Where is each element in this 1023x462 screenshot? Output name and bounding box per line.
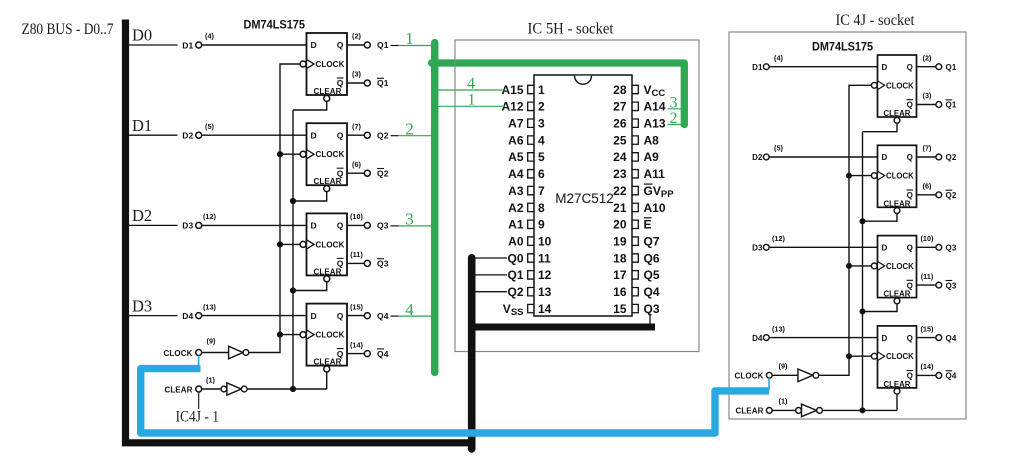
pin 17 bracket (right) xyxy=(632,271,638,279)
svg-text:(9): (9) xyxy=(779,361,788,370)
svg-text:D4: D4 xyxy=(752,334,763,343)
svg-text:D: D xyxy=(882,63,888,72)
svg-text:1: 1 xyxy=(468,92,476,109)
inverter clear driver (right) xyxy=(796,408,802,414)
svg-text:D2: D2 xyxy=(132,206,152,225)
flip-flop 2 of U (left DM74LS175) xyxy=(300,123,347,191)
wire Q-bar1 output stub (right) xyxy=(917,104,936,106)
svg-text:(9): (9) xyxy=(207,336,216,345)
wire Q-bar1 output stub (left) xyxy=(347,82,364,84)
terminal Q4 (right) xyxy=(936,335,942,341)
flip-flop 1 of IC 4J (right DM74LS175) xyxy=(871,55,916,123)
svg-text:CLEAR: CLEAR xyxy=(314,267,342,276)
wire D1 from bus to D2 terminal xyxy=(129,134,178,136)
wire blue thin stub at right CLOCK terminal xyxy=(768,378,770,390)
svg-text:27: 27 xyxy=(613,100,627,114)
svg-text:A0: A0 xyxy=(508,234,524,248)
flip-flop 3 of IC 4J (right DM74LS175) xyxy=(871,236,916,304)
svg-text:(5): (5) xyxy=(774,144,783,153)
flip-flop 3 of U (left DM74LS175) xyxy=(300,213,347,281)
svg-text:D1: D1 xyxy=(182,40,193,50)
svg-text:20: 20 xyxy=(613,218,627,232)
wire Q-bar4 output stub (right) xyxy=(917,374,936,376)
svg-text:Q3: Q3 xyxy=(377,259,389,269)
svg-text:Q4: Q4 xyxy=(946,334,957,343)
terminal Q2 (right) xyxy=(936,154,942,160)
svg-text:DM74LS175: DM74LS175 xyxy=(244,17,306,31)
svg-text:D: D xyxy=(882,153,888,162)
junction clear rail (right) xyxy=(860,218,866,224)
svg-text:CLEAR: CLEAR xyxy=(884,109,911,118)
wire D2 terminal to FF D input (right) xyxy=(769,156,877,158)
svg-text:4: 4 xyxy=(467,75,475,92)
svg-text:(4): (4) xyxy=(774,53,783,62)
pin 9 bracket (left) xyxy=(528,220,534,228)
svg-text:(6): (6) xyxy=(352,160,361,169)
svg-text:CLEAR: CLEAR xyxy=(314,177,342,186)
wire green A13 annotation xyxy=(668,124,685,126)
svg-text:10: 10 xyxy=(538,234,552,248)
junction clock rail / FF3 (right) xyxy=(846,263,852,269)
svg-text:CLOCK: CLOCK xyxy=(886,81,914,90)
notch on chip top xyxy=(575,76,592,85)
svg-text:Q: Q xyxy=(907,153,913,162)
wire Q-bar4 output stub (left) xyxy=(347,353,364,355)
svg-text:Q4: Q4 xyxy=(644,285,660,299)
svg-text:Q3: Q3 xyxy=(946,244,957,253)
svg-text:Q3: Q3 xyxy=(377,221,389,231)
svg-text:Q: Q xyxy=(907,334,913,343)
svg-text:(2): (2) xyxy=(923,53,932,62)
svg-text:A14: A14 xyxy=(644,100,666,114)
pin 13 bracket (left) xyxy=(528,288,534,296)
svg-text:D1: D1 xyxy=(752,63,763,72)
terminal Q4 (left) xyxy=(364,313,370,319)
wire clock rail to FF4 clock bubble (right) xyxy=(849,355,871,357)
wire CLEAR of FF1 to clear rail (right) xyxy=(863,123,898,131)
svg-text:9: 9 xyxy=(538,218,545,232)
svg-text:Q: Q xyxy=(337,130,344,140)
buffer clock driver (left) xyxy=(229,346,243,359)
svg-text:24: 24 xyxy=(613,150,627,164)
svg-text:D1: D1 xyxy=(132,116,152,135)
wire CLEAR of FF2 to clear rail (right) xyxy=(863,214,898,222)
svg-text:CLEAR: CLEAR xyxy=(735,407,763,416)
svg-text:2: 2 xyxy=(538,100,545,114)
pin 12 bracket (left) xyxy=(528,271,534,279)
pin 23 bracket (right) xyxy=(632,170,638,178)
wire clock rail to flip-flop 3 clock bubble (left) xyxy=(280,243,300,245)
svg-text:Q: Q xyxy=(907,244,913,253)
wire Q-bar2 output stub (right) xyxy=(917,194,936,196)
flip-flop 4 of IC 4J (right DM74LS175) xyxy=(871,326,916,394)
wire Q2 output stub (left) xyxy=(347,134,364,136)
pin 3 bracket (left) xyxy=(528,119,534,127)
pin 10 bracket (left) xyxy=(528,237,534,245)
pin 24 bracket (right) xyxy=(632,153,638,161)
svg-text:3: 3 xyxy=(670,94,678,111)
inverter clear driver (left) xyxy=(221,386,227,392)
wire green annotation Q1 to green bus xyxy=(399,45,432,47)
svg-text:25: 25 xyxy=(613,133,627,147)
svg-text:21: 21 xyxy=(613,201,627,215)
wire green annotation Q2 to green bus xyxy=(399,135,432,137)
junction clear rail (left) xyxy=(290,287,296,293)
svg-text:(2): (2) xyxy=(352,32,361,41)
svg-text:Q2: Q2 xyxy=(377,130,389,140)
wire green annotation Q3 to green bus xyxy=(399,225,432,227)
svg-text:IC 4J - socket: IC 4J - socket xyxy=(836,12,916,29)
svg-text:A5: A5 xyxy=(508,150,524,164)
wire CLEAR of flip-flop 1 to clear rail (left) xyxy=(293,101,327,110)
wire D3 terminal to FF D input (right) xyxy=(769,246,877,248)
terminal D4 input (right) xyxy=(763,335,769,341)
svg-text:A9: A9 xyxy=(644,150,660,164)
svg-text:A3: A3 xyxy=(508,184,524,198)
buffer clock driver (right) xyxy=(798,369,813,382)
svg-text:(1): (1) xyxy=(779,396,788,405)
svg-text:D: D xyxy=(882,244,888,253)
terminal Q1 (right) xyxy=(936,64,942,70)
wire Q1 label to green annotation (black stub) xyxy=(391,45,399,47)
svg-text:CLOCK: CLOCK xyxy=(316,331,345,340)
svg-text:3: 3 xyxy=(405,210,414,229)
svg-text:12: 12 xyxy=(538,268,552,282)
svg-text:CLOCK: CLOCK xyxy=(316,240,345,249)
svg-text:Q: Q xyxy=(337,40,344,50)
pin 11 bracket (left) xyxy=(528,254,534,262)
wire CLEAR terminal to inverter (right) xyxy=(772,409,795,411)
svg-text:A1: A1 xyxy=(508,218,524,232)
svg-text:CLOCK: CLOCK xyxy=(735,372,764,381)
svg-text:A2: A2 xyxy=(508,201,524,215)
svg-text:Q: Q xyxy=(907,63,913,72)
wire clock rail to FF2 clock bubble (right) xyxy=(849,175,871,177)
wire Q1 output stub (right) xyxy=(917,66,936,68)
svg-text:CLEAR: CLEAR xyxy=(314,87,342,96)
svg-text:CLEAR: CLEAR xyxy=(164,385,192,394)
wire Q3 output stub (right) xyxy=(917,246,936,248)
svg-text:4: 4 xyxy=(405,300,414,319)
pin 15 bracket (right) xyxy=(632,304,638,312)
terminal Q2 (left) xyxy=(364,132,370,138)
terminal Q-bar4 (right) xyxy=(936,373,942,379)
junction clear rail (right) xyxy=(860,309,866,315)
wire CLEAR of flip-flop 4 down to clear buffer line (left) xyxy=(326,372,328,389)
terminal Q-bar1 (right) xyxy=(936,102,942,108)
terminal Q1 (left) xyxy=(364,42,370,48)
svg-text:(12): (12) xyxy=(203,212,217,221)
svg-text:(13): (13) xyxy=(772,324,786,333)
flip-flop 4 of U (left DM74LS175) xyxy=(300,304,347,372)
wire CLOCK terminal to buffer (right) xyxy=(772,374,798,376)
svg-text:A6: A6 xyxy=(508,133,524,147)
wire CLOCK rail (left, x=280) xyxy=(249,64,300,353)
pin 5 bracket (left) xyxy=(528,153,534,161)
svg-text:A13: A13 xyxy=(644,117,666,131)
terminal D4 input xyxy=(196,313,202,319)
svg-text:Q1: Q1 xyxy=(377,40,389,50)
svg-text:16: 16 xyxy=(613,285,627,299)
svg-text:5: 5 xyxy=(538,150,545,164)
svg-text:11: 11 xyxy=(538,251,551,265)
svg-text:Q3: Q3 xyxy=(644,302,660,316)
wire green A15 annotation xyxy=(438,89,505,91)
svg-text:(12): (12) xyxy=(772,234,786,243)
svg-text:1: 1 xyxy=(405,29,414,48)
wire D4 terminal to flip-flop D input xyxy=(202,315,307,317)
wire Q3 output stub (left) xyxy=(347,224,364,226)
terminal Q3 (right) xyxy=(936,244,942,250)
terminal CLEAR (left) xyxy=(196,386,202,392)
svg-text:(10): (10) xyxy=(921,234,935,243)
svg-text:IC 5H - socket: IC 5H - socket xyxy=(528,21,615,38)
svg-text:D2: D2 xyxy=(182,131,193,141)
svg-text:Q3: Q3 xyxy=(946,281,957,290)
svg-text:1: 1 xyxy=(538,83,545,97)
svg-text:15: 15 xyxy=(613,302,627,316)
terminal Q3 (left) xyxy=(364,222,370,228)
terminal Q-bar3 (right) xyxy=(936,282,942,288)
wire clock rail to flip-flop 4 clock bubble (left) xyxy=(280,334,300,336)
pin 20 bracket (right) xyxy=(632,220,638,228)
svg-text:CLEAR: CLEAR xyxy=(884,290,911,299)
pin 16 bracket (right) xyxy=(632,288,638,296)
wire data bus to Q3 pin15 (thick black) xyxy=(472,324,655,331)
junction clock rail / FF3 (left) xyxy=(277,241,283,247)
svg-text:E: E xyxy=(644,218,652,232)
svg-text:Q0: Q0 xyxy=(507,251,523,265)
svg-text:D4: D4 xyxy=(182,311,193,321)
svg-text:22: 22 xyxy=(613,184,627,198)
flip-flop 1 of U (left DM74LS175) xyxy=(300,33,347,101)
svg-text:18: 18 xyxy=(613,251,627,265)
svg-text:(7): (7) xyxy=(923,144,932,153)
wire D2 terminal to flip-flop D input xyxy=(202,134,307,136)
wire CLEAR of FF3 to clear rail (right) xyxy=(863,304,898,312)
svg-text:17: 17 xyxy=(613,268,627,282)
wire CLEAR of flip-flop 3 to clear rail (left) xyxy=(293,282,327,291)
pin 25 bracket (right) xyxy=(632,136,638,144)
flip-flop 2 of IC 4J (right DM74LS175) xyxy=(871,145,916,213)
svg-text:Q: Q xyxy=(337,221,344,231)
svg-text:CLOCK: CLOCK xyxy=(886,172,914,181)
svg-text:Q6: Q6 xyxy=(644,251,660,265)
wire CLOCK rail (right, x=849) xyxy=(819,85,871,375)
socket outline IC 4J xyxy=(729,32,966,419)
pin 22 bracket (right) xyxy=(632,186,638,194)
svg-text:7: 7 xyxy=(538,184,545,198)
pin 28 bracket (right) xyxy=(632,85,638,93)
wire D3 from bus to D4 terminal xyxy=(129,315,178,317)
svg-text:23: 23 xyxy=(613,167,627,181)
pin 2 bracket (left) xyxy=(528,102,534,110)
pin 1 bracket (left) xyxy=(528,85,534,93)
pin 27 bracket (right) xyxy=(632,102,638,110)
wire D2 from bus to D3 terminal xyxy=(129,224,178,226)
pin 8 bracket (left) xyxy=(528,203,534,211)
svg-text:A11: A11 xyxy=(644,167,666,181)
svg-text:CLEAR: CLEAR xyxy=(314,358,342,367)
wire green bus branch to A14/A13 (thick, top + right drop) xyxy=(432,63,685,125)
svg-text:(3): (3) xyxy=(352,70,361,79)
pin 7 bracket (left) xyxy=(528,186,534,194)
svg-text:(10): (10) xyxy=(350,212,364,221)
svg-text:D3: D3 xyxy=(752,244,763,253)
terminal CLOCK (left) xyxy=(196,350,202,356)
svg-text:D: D xyxy=(311,40,317,50)
EPROM U (M27C512) body xyxy=(534,75,632,316)
wire clock rail to flip-flop 2 clock bubble (left) xyxy=(280,153,300,155)
svg-text:D: D xyxy=(311,130,317,140)
svg-text:Q: Q xyxy=(337,311,344,321)
wire Q-bar3 output stub (right) xyxy=(917,284,936,286)
junction clock rail / FF4 (right) xyxy=(846,353,852,359)
svg-text:13: 13 xyxy=(538,285,552,299)
svg-text:2: 2 xyxy=(670,110,678,127)
svg-text:Q4: Q4 xyxy=(377,311,389,321)
svg-text:DM74LS175: DM74LS175 xyxy=(812,39,873,53)
junction clear rail (left) xyxy=(290,198,296,204)
wire Q1 to bus xyxy=(475,274,507,276)
svg-text:(6): (6) xyxy=(923,182,932,191)
terminal Q-bar4 (left) xyxy=(364,351,370,357)
wire Q-bar3 output stub (left) xyxy=(347,262,364,264)
svg-text:(14): (14) xyxy=(921,362,935,371)
svg-text:M27C512: M27C512 xyxy=(555,191,614,206)
svg-text:(5): (5) xyxy=(205,122,214,131)
wire D0 from bus to D1 terminal xyxy=(129,44,178,46)
wire blue clock link (thick) xyxy=(141,369,769,433)
svg-text:CLEAR: CLEAR xyxy=(884,199,911,208)
terminal CLEAR (right) xyxy=(766,408,772,414)
wire data bus Q0-Q2 (thick black vertical, middle) xyxy=(468,258,476,449)
wire D4 terminal to FF D input (right) xyxy=(769,337,877,339)
svg-text:CLOCK: CLOCK xyxy=(316,60,345,69)
wire Q4 output stub (left) xyxy=(347,315,364,317)
wire D3 terminal to flip-flop D input xyxy=(202,224,307,226)
svg-text:A4: A4 xyxy=(508,167,524,181)
wire Q2 label to green annotation (black stub) xyxy=(391,135,399,137)
svg-text:Q2: Q2 xyxy=(946,153,957,162)
svg-text:6: 6 xyxy=(538,167,545,181)
svg-text:Z80 BUS - D0..7: Z80 BUS - D0..7 xyxy=(22,21,114,38)
terminal D3 input (right) xyxy=(763,244,769,250)
wire clock rail to FF3 clock bubble (right) xyxy=(849,265,871,267)
terminal CLOCK (right) xyxy=(766,372,772,378)
junction clock rail / FF4 (left) xyxy=(277,332,283,338)
wire green A14 annotation xyxy=(668,108,685,110)
pin 14 bracket (left) xyxy=(528,304,534,312)
svg-text:Q4: Q4 xyxy=(377,349,389,359)
pin 19 bracket (right) xyxy=(632,237,638,245)
svg-text:(13): (13) xyxy=(203,302,217,311)
terminal D2 input (right) xyxy=(763,154,769,160)
svg-text:(11): (11) xyxy=(350,250,363,259)
svg-text:CLOCK: CLOCK xyxy=(886,352,914,361)
svg-text:19: 19 xyxy=(613,234,627,248)
wire Q1 output stub (left) xyxy=(347,44,364,46)
pin 4 bracket (left) xyxy=(528,136,534,144)
wire Q2 output stub (right) xyxy=(917,156,936,158)
svg-text:Q1: Q1 xyxy=(377,78,389,88)
wire green A12 annotation xyxy=(438,105,505,107)
terminal D1 input xyxy=(196,42,202,48)
svg-text:28: 28 xyxy=(613,83,627,97)
wire Z80 data bus (thick black, left vertical + bottom horizontal) xyxy=(126,20,475,443)
svg-text:(15): (15) xyxy=(921,324,935,333)
svg-text:A10: A10 xyxy=(644,201,666,215)
svg-text:(1): (1) xyxy=(206,376,215,385)
svg-text:IC4J - 1: IC4J - 1 xyxy=(176,409,220,426)
wire Q0 to bus xyxy=(475,257,507,259)
wire Q4 output stub (right) xyxy=(917,337,936,339)
svg-text:D0: D0 xyxy=(132,26,152,45)
wire green address bus (thick vertical) xyxy=(431,43,439,373)
pin 6 bracket (left) xyxy=(528,170,534,178)
svg-text:Q1: Q1 xyxy=(946,101,957,110)
terminal D2 input xyxy=(196,132,202,138)
wire clear buffer output to FF4 clear (left) xyxy=(247,388,327,390)
wire D1 terminal to flip-flop D input xyxy=(202,44,307,46)
wire CLEAR of flip-flop 2 to clear rail (left) xyxy=(293,192,327,201)
wire CLEAR of FF4 down to clear line (right) xyxy=(896,394,898,410)
junction clock rail / FF2 (left) xyxy=(277,151,283,157)
svg-text:Q2: Q2 xyxy=(946,191,957,200)
wire Q2 to bus xyxy=(475,291,507,293)
junction clear rail (right) xyxy=(860,407,866,413)
svg-text:(7): (7) xyxy=(352,122,361,131)
terminal Q-bar3 (left) xyxy=(364,260,370,266)
svg-text:D: D xyxy=(882,334,888,343)
wire D1 terminal to FF D input (right) xyxy=(769,66,877,68)
svg-text:Q4: Q4 xyxy=(946,372,957,381)
svg-text:Q1: Q1 xyxy=(946,63,957,72)
svg-text:Q2: Q2 xyxy=(377,168,389,178)
terminal D1 input (right) xyxy=(763,64,769,70)
wire stub CLEAR terminal to IC4J-1 label xyxy=(198,392,200,409)
svg-text:4: 4 xyxy=(538,133,545,147)
svg-text:D2: D2 xyxy=(752,153,763,162)
wire CLOCK terminal to buffer (left) xyxy=(202,352,229,354)
svg-text:CLOCK: CLOCK xyxy=(164,349,193,358)
wire blue thin stub at left CLOCK terminal xyxy=(198,356,200,367)
wire Q3 label to green annotation (black stub) xyxy=(391,225,399,227)
svg-text:A8: A8 xyxy=(644,133,660,147)
wire thin stub pin15 Q3 down to thick bus xyxy=(649,314,651,329)
pin 26 bracket (right) xyxy=(632,119,638,127)
wire Q-bar2 output stub (left) xyxy=(347,172,364,174)
terminal D3 input xyxy=(196,222,202,228)
svg-text:(4): (4) xyxy=(205,32,214,41)
svg-text:26: 26 xyxy=(613,117,627,131)
socket outline IC 5H xyxy=(455,40,699,352)
svg-text:D3: D3 xyxy=(132,296,152,315)
svg-text:Q1: Q1 xyxy=(507,268,523,282)
terminal Q-bar2 (left) xyxy=(364,170,370,176)
wire Q4 label to green annotation (black stub) xyxy=(391,315,399,317)
svg-text:14: 14 xyxy=(538,302,552,316)
wire CLEAR rail (left, x=293) xyxy=(292,110,294,389)
svg-text:D: D xyxy=(311,311,317,321)
terminal Q-bar1 (left) xyxy=(364,80,370,86)
svg-text:D3: D3 xyxy=(182,221,193,231)
svg-text:CLEAR: CLEAR xyxy=(884,380,911,389)
wire green annotation Q4 to green bus xyxy=(399,315,432,317)
svg-text:(3): (3) xyxy=(923,91,932,100)
terminal Q-bar2 (right) xyxy=(936,192,942,198)
svg-text:(14): (14) xyxy=(350,340,364,349)
